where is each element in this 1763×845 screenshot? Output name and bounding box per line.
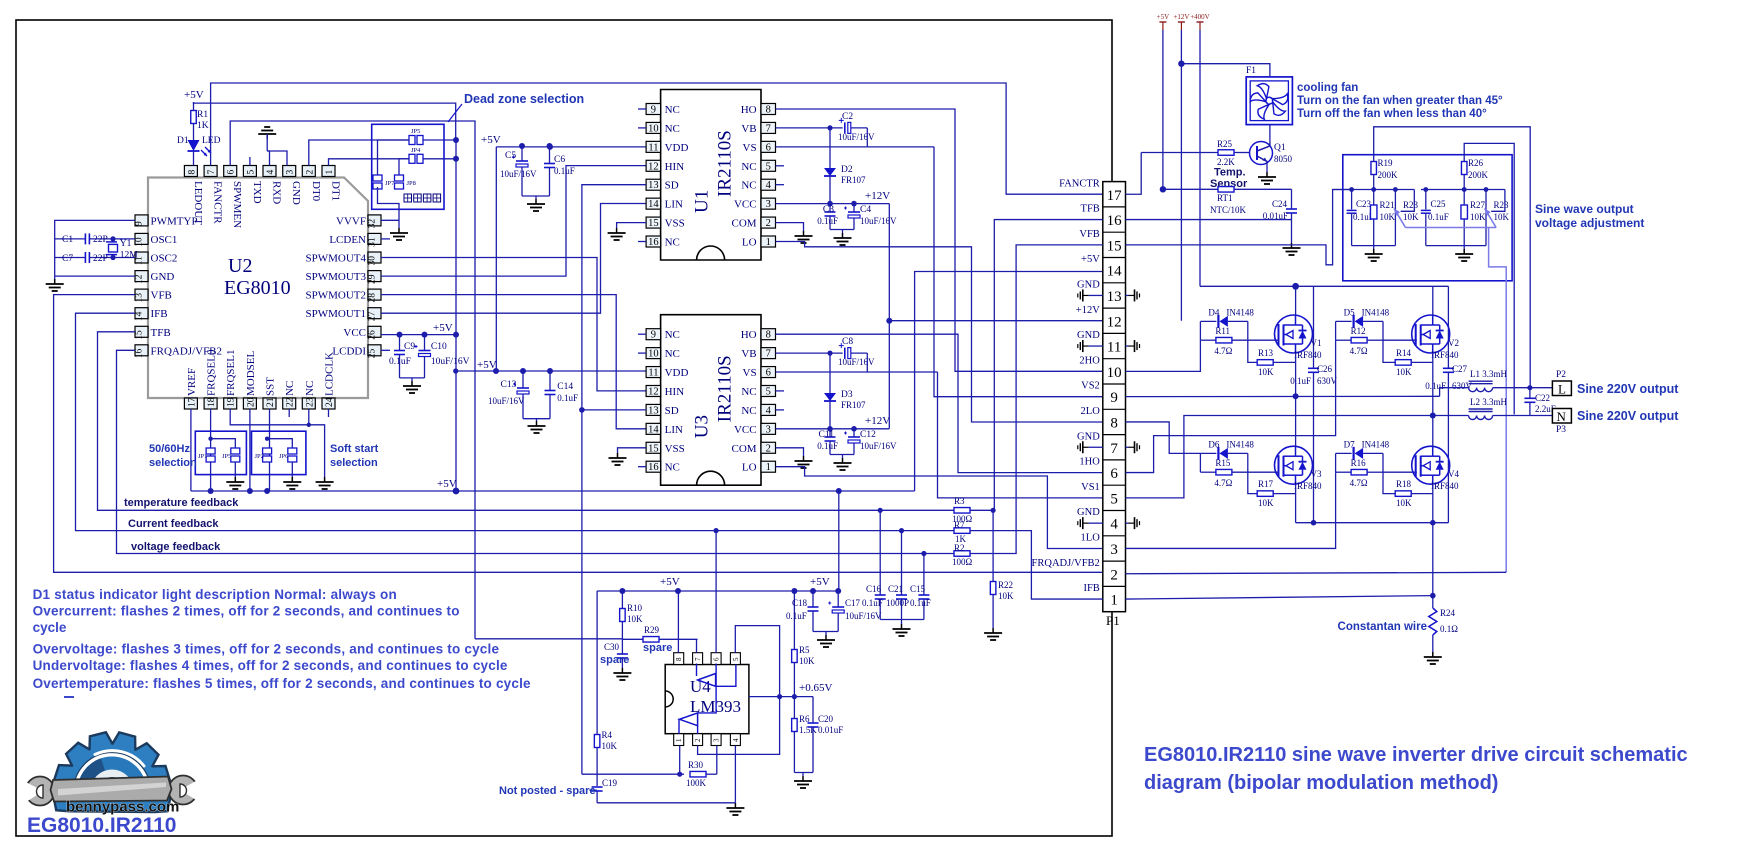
svg-text:C20: C20 [818,714,834,724]
svg-text:15: 15 [648,218,659,229]
wire C8 right [866,353,868,372]
wire U1 VSS gnd [617,223,647,228]
ground U2 gnd [54,279,56,284]
wire C11 C12 bottom [830,454,854,456]
op-amp U4B triangle [680,713,698,726]
svg-text:DT1: DT1 [330,181,342,201]
svg-text:VDD: VDD [665,142,689,154]
svg-text:4: 4 [266,170,276,175]
capacitor C1 [84,233,86,244]
svg-text:0.1uF: 0.1uF [910,598,931,608]
transistor V3 IRF840 [1275,446,1313,484]
svg-text:R13: R13 [1258,348,1274,358]
block dead zone selection [372,124,444,209]
transistor V1 IRF840 [1275,315,1313,353]
svg-text:V3: V3 [1311,469,1322,479]
wire +400V rail [1200,285,1448,287]
inductor L2 3.3mH [1469,416,1477,420]
svg-text:9: 9 [1110,390,1118,406]
wire U4 in3 to R7line [715,531,717,653]
svg-text:HO: HO [741,329,757,341]
U2 pin 10 OSC1 [135,233,148,244]
wire NC23 [308,409,310,425]
node U1 VCC C4 [851,201,857,207]
U2 pin 16 FRQADJ/VFB2 [135,345,148,356]
svg-text:C1: C1 [62,235,73,245]
svg-text:100Ω: 100Ω [952,557,973,567]
svg-text:31: 31 [368,237,378,247]
svg-text:18: 18 [207,397,217,407]
svg-text:R2: R2 [954,543,965,553]
svg-text:0.1uF: 0.1uF [1290,376,1311,386]
fan F1 [1246,77,1292,125]
svg-text:21: 21 [266,397,276,407]
U2 pin 13 VFB [135,289,148,300]
resistor R24 constantan [1429,608,1437,635]
node U4 rail C17 [835,588,841,594]
node rail SST [264,488,270,494]
svg-text:R25: R25 [1217,139,1233,149]
node potR a [1423,187,1428,192]
svg-text:IR2110S: IR2110S [715,130,736,197]
svg-text:Undervoltage: flashes 4 times,: Undervoltage: flashes 4 times, off for 2… [33,658,508,673]
svg-text:D4: D4 [1208,307,1219,317]
svg-text:RT1: RT1 [1217,193,1232,203]
svg-text:JP8: JP8 [407,180,416,187]
svg-text:R3: R3 [954,496,965,506]
node U4 rail C18 [810,588,816,594]
svg-text:VS2: VS2 [1081,381,1100,392]
svg-text:24: 24 [325,397,335,407]
resistor R27 [1463,190,1465,206]
svg-text:R14: R14 [1396,348,1412,358]
svg-text:R10: R10 [627,603,643,613]
svg-text:20: 20 [246,397,256,407]
wire VREF [190,409,192,491]
svg-text:JP4: JP4 [411,147,421,154]
wire FANCTR top bus [211,83,1103,194]
U2 pin 26 VCC [368,326,381,337]
wire R26 top [1464,143,1514,414]
svg-text:9: 9 [651,105,656,116]
svg-text:D2: D2 [841,165,853,175]
wire D7R16 verticals [1335,453,1337,472]
U2 pin 9 PWMTYP [135,215,148,226]
op-amp U1 pin 6 VS [761,141,776,152]
capacitor C4 [853,204,855,212]
svg-text:17: 17 [187,397,197,407]
resistor R11 4.7ohm [1200,339,1216,341]
svg-text:L: L [1558,382,1566,397]
op-amp U3 pin 6 VS [761,367,776,378]
wire fan to Q1 [1269,125,1271,143]
wire C3 C4 bottom [830,229,854,231]
wire +5V U4 rail [838,491,840,591]
svg-text:7: 7 [694,657,702,661]
resistor R18 [1395,491,1411,497]
capacitor C23 [1351,190,1353,210]
wire NC22 stub [288,409,290,417]
svg-text:1: 1 [325,170,335,175]
svg-text:SPWMOUT1: SPWMOUT1 [305,308,366,320]
svg-text:+12V: +12V [1076,305,1100,316]
svg-text:IRF840: IRF840 [1294,481,1322,491]
svg-text:R23: R23 [1494,200,1510,210]
svg-text:NC: NC [665,123,680,135]
node U3 VCC C11 [827,426,833,432]
op-amp U1 pin 8 HO [761,104,776,115]
svg-text:VSS: VSS [665,443,685,455]
node rail FRQSEL0 [208,488,214,494]
svg-text:R24: R24 [1440,608,1456,618]
svg-text:R1: R1 [197,110,208,120]
svg-text:10K: 10K [1396,498,1412,508]
resistor R2 [954,551,970,557]
svg-text:VCC: VCC [343,327,366,339]
wire rail to R24 [1432,523,1434,608]
svg-text:3: 3 [286,170,296,175]
node Y1 top [110,236,115,241]
svg-text:10K: 10K [998,591,1014,601]
svg-text:+5V: +5V [437,478,457,490]
node R5 node [792,694,797,699]
capacitor C27 [1443,367,1454,369]
ground C5C6 [535,199,537,204]
ground P1 pin 7 right [1129,446,1135,448]
svg-text:2LO: 2LO [1081,406,1101,417]
wire C13 C14 bottom [523,418,550,420]
svg-text:NC: NC [665,104,680,116]
node DT1 junction [453,156,459,162]
svg-text:LCDCLK: LCDCLK [324,352,336,396]
svg-text:6: 6 [1110,466,1118,482]
svg-text:D6: D6 [1208,439,1219,449]
wire C9 C10 bottom [400,377,425,379]
wire +400V flag [1199,30,1201,286]
svg-text:LO: LO [742,462,757,474]
svg-text:14: 14 [648,199,659,210]
U2 pin 21 SST [263,398,276,409]
jumper JP4 [409,154,415,163]
wire pot rail L [1333,189,1415,191]
svg-text:IRF840: IRF840 [1431,481,1459,491]
svg-text:spare: spare [600,654,629,666]
block soft start selection [252,431,306,474]
resistor R30 [582,773,684,775]
svg-text:JP2: JP2 [255,453,264,460]
capacitor C19 [592,786,603,788]
svg-text:28: 28 [368,293,378,303]
svg-text:VB: VB [741,348,756,360]
wire FRQSEL1 [230,409,324,477]
resistor R16 4.7ohm [1336,471,1352,473]
svg-text:R19: R19 [1378,158,1394,168]
block 50/60Hz selection [195,431,246,474]
svg-text:12: 12 [135,274,145,284]
svg-text:10K: 10K [1494,212,1510,222]
svg-text:10K: 10K [799,656,815,666]
resistor R22 [992,510,994,581]
wire VCC rail [381,334,456,336]
wire U1 VB [776,127,843,129]
op-amp U1 pin 15 VSS [646,217,661,228]
wire JP3 branch [211,439,236,448]
svg-text:GND: GND [1077,431,1100,442]
border frame [16,20,1112,836]
resistor R10 [621,591,623,608]
svg-text:9: 9 [135,221,145,226]
wire LCDDI stub [381,349,390,351]
node U1 VDD [547,144,553,150]
U2 pin 12 GND [135,271,148,282]
svg-text:C21: C21 [888,584,903,594]
node R30 left [677,772,682,777]
ic U4 LM393 body [665,665,749,734]
ground C30 [621,668,623,673]
svg-text:IRF840: IRF840 [1431,350,1459,360]
svg-text:630V: 630V [1317,376,1338,386]
U2 pin 23 NC [302,398,315,409]
svg-text:2: 2 [1110,567,1118,583]
node rail C26b [1311,520,1317,526]
capacitor C26 [1308,367,1319,369]
wire IFB right [1126,596,1433,599]
wire FANCTR P1 [1126,153,1142,195]
svg-text:5: 5 [732,657,740,661]
wire FRQSEL0 [210,409,212,491]
svg-text:4.7Ω: 4.7Ω [1214,478,1232,488]
op-amp U1 pin 7 VB [761,122,776,133]
svg-text:1000P: 1000P [886,598,909,608]
wire V1 drain [1295,286,1297,315]
resistor R5 [793,591,795,649]
node C13 top [520,368,526,374]
wire wiper to FRQADJ [1489,228,1507,573]
resistor R13 [1257,360,1273,366]
wire L1 out [1493,387,1553,389]
U2 pin 5 TXD [243,166,256,177]
op-amp U3 pin 7 VB [761,348,776,359]
svg-text:IN4148: IN4148 [1226,439,1254,449]
wire GND pin [55,275,135,277]
svg-text:FRQSEL0: FRQSEL0 [206,349,218,396]
svg-text:JP1: JP1 [198,453,207,460]
svg-text:TFB: TFB [1081,204,1100,215]
svg-text:9: 9 [651,330,656,341]
U2 pin 15 TFB [135,326,148,337]
svg-text:VS: VS [743,367,757,379]
wire VS1 line [1126,416,1469,498]
ground R22 [992,628,994,633]
svg-text:Sine wave output: Sine wave output [1535,202,1634,216]
node R3 right [991,508,996,513]
U2 pin 27 SPWMOUT1 [368,308,381,319]
wire U1 NC9 stub [638,108,646,110]
svg-text:13: 13 [648,180,659,191]
svg-text:3: 3 [713,738,721,742]
svg-text:0.1uF: 0.1uF [862,598,883,608]
svg-text:C13: C13 [501,380,517,390]
wire U3 HO [776,334,1103,472]
crystal Y1 [109,244,118,252]
svg-text:C19: C19 [602,778,618,788]
U2 pin 11 OSC2 [135,252,148,263]
potentiometer R23a [1394,190,1396,246]
svg-text:OSC2: OSC2 [151,253,178,265]
wire bottom rail [1296,522,1449,524]
capacitor C25 [1425,190,1427,210]
svg-text:D7: D7 [1344,439,1355,449]
node U1 VB tee [827,125,832,130]
svg-text:D1 status indicator light desc: D1 status indicator light description No… [33,587,397,602]
svg-text:4.7Ω: 4.7Ω [1350,478,1368,488]
svg-text:10K: 10K [1403,212,1419,222]
svg-text:4: 4 [766,180,772,191]
wire R29 to pin2 [696,639,698,652]
label dead zone cjk [404,194,412,202]
wire U3 NC5 stub [776,390,785,392]
ground C3C4 [842,233,844,238]
svg-text:10K: 10K [1396,367,1412,377]
wire R25 line [1141,152,1218,154]
svg-text:IN4148: IN4148 [1362,439,1390,449]
U4 top pin 1 [674,653,684,665]
svg-text:6: 6 [227,170,237,175]
block sine adjust [1343,155,1512,281]
op-amp U1 pin 12 HIN [646,160,661,171]
svg-text:LO: LO [742,237,757,249]
wire C26 snubber [1313,286,1315,368]
svg-text:HO: HO [741,104,757,116]
svg-text:IN4148: IN4148 [1362,307,1390,317]
svg-text:VS: VS [743,142,757,154]
capacitor C7 [84,252,86,263]
svg-text:C26: C26 [1317,364,1333,374]
node R3 left [878,508,883,513]
svg-text:100K: 100K [686,778,707,788]
op-amp U3 pin 10 NC [646,348,661,359]
ic U2 EG8010 body [148,178,368,399]
svg-text:D5: D5 [1344,307,1355,317]
op-amp U3 pin 1 LO [761,461,776,472]
op-amp U4A triangle [698,674,716,687]
svg-text:Y1: Y1 [120,239,132,249]
node R2 left [921,551,926,556]
svg-text:22P: 22P [93,235,108,245]
wire U3 VS [776,371,938,373]
svg-text:8: 8 [187,170,197,175]
jumper JP1 [206,448,215,454]
svg-text:TFB: TFB [151,327,171,339]
inductor L1 3.3mH [1469,388,1477,392]
svg-text:C12: C12 [860,430,876,440]
svg-text:P1: P1 [1106,613,1120,628]
svg-text:IRF840: IRF840 [1294,350,1322,360]
wire R7 line [902,530,955,532]
svg-text:12: 12 [1107,314,1122,330]
svg-text:C4: C4 [860,205,871,215]
wire JP4 left leg [399,159,409,177]
svg-text:NC: NC [741,405,756,417]
U2 pin 14 IFB [135,308,148,319]
svg-text:SD: SD [665,405,679,417]
node rail +5V bus [453,488,460,495]
svg-text:diagram (bipolar modulation me: diagram (bipolar modulation method) [1144,772,1498,794]
ground C24 [1291,243,1293,248]
ground U4 [734,803,736,808]
svg-text:23: 23 [305,397,315,407]
svg-text:R17: R17 [1258,479,1274,489]
wire +5V C5 rail [495,147,497,371]
svg-text:10K: 10K [602,741,618,751]
wire U3 NC4 stub [776,409,785,411]
jumper JP2 [263,448,272,454]
ground U3 VSS [617,453,619,458]
svg-text:SPWMEN: SPWMEN [231,181,243,228]
svg-text:15: 15 [648,443,659,454]
op-amp U3 pin 15 VSS [646,442,661,453]
svg-text:12: 12 [648,161,659,172]
transistor V4 IRF840 [1412,446,1450,484]
svg-text:R29: R29 [644,625,660,635]
resistor R1 [191,111,197,124]
connector P2 L [1552,381,1571,396]
svg-text:2: 2 [694,738,702,742]
node IFB tap [1430,593,1436,599]
wire C2 right [866,128,868,147]
svg-text:1: 1 [766,462,771,473]
node rail MODSEL [247,488,253,494]
svg-text:bennypass.com: bennypass.com [66,799,179,816]
svg-text:27: 27 [368,311,378,321]
U2 pin 30 SPWMOUT4 [368,252,381,263]
svg-text:11: 11 [648,368,658,379]
svg-text:LCDEN: LCDEN [329,234,366,246]
wire LCDCLK stub [328,409,330,417]
wire Q1 emitter gnd [1266,163,1268,172]
wire TFB left [994,220,1103,511]
U2 pin 32 VVVF [368,215,381,226]
wire U3 VB [776,352,843,354]
svg-text:2.2K: 2.2K [1217,157,1235,167]
U2 pin 19 FRQSEL1 [224,398,237,409]
svg-text:NC: NC [741,161,756,173]
svg-text:V1: V1 [1311,338,1322,348]
svg-text:NTC/10K: NTC/10K [1210,205,1247,215]
wire RT1 line [1163,188,1218,190]
op-amp U1 pin 16 NC [646,236,661,247]
op-amp U1 pin 1 LO [761,236,776,247]
U2 pin 20 MODSEL [243,398,256,409]
U2 pin 29 SPWMOUT3 [368,271,381,282]
node C6 top [547,143,553,149]
diode D3 FR107 [829,353,831,393]
svg-text:Turn off the fan when less tha: Turn off the fan when less than 40° [1297,108,1487,120]
wire JP5 left leg [378,140,410,177]
svg-text:+5V: +5V [660,576,680,588]
svg-text:10uF/16V: 10uF/16V [488,396,525,406]
svg-text:V2: V2 [1448,338,1459,348]
svg-text:R23: R23 [1403,200,1419,210]
svg-text:C7: C7 [62,254,73,264]
svg-text:10uF/16V: 10uF/16V [860,441,897,451]
resistor R4 [596,734,598,736]
resistor R25 [1218,150,1234,156]
op-amp U1 pin 13 SD [646,179,661,190]
svg-text:0.1uF: 0.1uF [786,611,807,621]
svg-text:R16: R16 [1351,458,1367,468]
wire JP7 JP8 bottom [378,187,400,228]
